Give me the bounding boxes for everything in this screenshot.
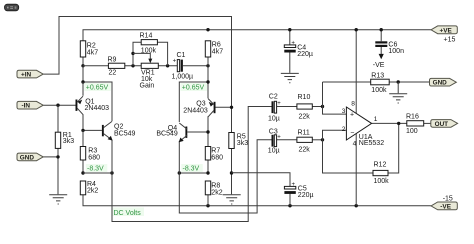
svg-text:DC Volts: DC Volts: [114, 210, 142, 217]
transistor Q4: [156, 123, 187, 142]
node R10 right junction: [321, 105, 324, 108]
svg-text:100k: 100k: [374, 178, 390, 185]
node wiper tap junction: [131, 52, 134, 55]
resistor R14: [140, 33, 158, 55]
ground under R1: [49, 195, 67, 204]
svg-text:22k: 22k: [299, 114, 311, 121]
tag GND left: [17, 153, 43, 161]
capacitor C6: [375, 41, 404, 55]
node VR1 left junction: [131, 64, 134, 67]
svg-text:-IN: -IN: [22, 103, 31, 110]
transistor Q2: [102, 121, 136, 140]
svg-text:R11: R11: [298, 130, 310, 137]
label DC Volts: [113, 208, 145, 217]
svg-text:+IN: +IN: [21, 72, 32, 79]
wire R3 column: [82, 130, 84, 173]
svg-text:220µ: 220µ: [297, 51, 313, 58]
wire pin2 net vertical to R12: [323, 130, 374, 173]
wire R16 to OUT tag: [424, 122, 431, 124]
svg-text:Gain: Gain: [140, 83, 155, 90]
node C4 top junction: [288, 28, 291, 31]
wire Q2 node down to bottom rail to C2 riser: [112, 107, 272, 222]
wire R1 column: [57, 105, 59, 194]
node R14 right junction: [166, 64, 169, 67]
capacitor C2: [268, 93, 281, 122]
wire ground stub under R13: [397, 82, 399, 93]
wire Q3 collector to Q4 base node: [207, 116, 209, 146]
svg-text:GND: GND: [433, 80, 448, 87]
svg-text:R12: R12: [374, 162, 387, 169]
svg-text:8: 8: [351, 101, 355, 108]
node opamp pin4 junction: [355, 204, 358, 207]
svg-text:BC549: BC549: [114, 131, 136, 138]
svg-text:OUT: OUT: [435, 121, 449, 128]
node Q3 base junction: [230, 106, 233, 109]
wire Q3 emitter node row: [179, 66, 208, 122]
tag OUT: [431, 120, 458, 128]
resistor R13: [371, 72, 390, 93]
svg-text:+VE: +VE: [440, 27, 453, 34]
svg-text:+0.65V: +0.65V: [182, 85, 205, 92]
svg-text:R16: R16: [406, 114, 419, 121]
tag GND right: [430, 78, 457, 86]
svg-text:3: 3: [342, 108, 346, 115]
resistor R4: [80, 181, 98, 195]
capacitor C5: [284, 182, 313, 199]
svg-text:BC549: BC549: [156, 131, 178, 138]
svg-text:680: 680: [88, 154, 100, 161]
svg-text:100k: 100k: [141, 47, 157, 54]
svg-text:4: 4: [353, 140, 357, 147]
wire main +VE top rail: [83, 30, 431, 41]
svg-text:NE5532: NE5532: [359, 140, 384, 147]
resistor R16: [406, 114, 424, 136]
svg-text:220µ: 220µ: [298, 192, 314, 199]
-VE arrow under C6: [379, 54, 384, 59]
wire opamp pin8 vertical: [355, 30, 357, 114]
wire R5 bottom to ground node: [231, 149, 233, 195]
node R3 bottom junction: [81, 171, 84, 174]
svg-text:+: +: [277, 134, 281, 140]
wire Q4 base: [187, 131, 208, 133]
svg-text:4k7: 4k7: [212, 48, 223, 55]
wire C3 right to R11: [276, 139, 297, 141]
wire GND tag lead: [43, 156, 58, 158]
svg-text:+: +: [350, 112, 354, 119]
node R6 top junction: [206, 28, 209, 31]
node R7 bottom junction: [206, 171, 209, 174]
wire Q3 base: [215, 106, 231, 108]
svg-text:−: −: [350, 130, 354, 137]
resistor R6: [205, 41, 223, 57]
wire Q2 emitter vertical: [111, 140, 113, 173]
capacitor C3: [268, 129, 282, 155]
wire R9 VR1 row: [83, 65, 208, 67]
wire opamp pin4 vertical: [355, 134, 357, 206]
node R13 right junction: [397, 80, 400, 83]
svg-text:C2: C2: [269, 93, 278, 100]
wire R6 bottom to C1: [207, 57, 209, 66]
svg-text:680: 680: [211, 154, 223, 161]
svg-text:100: 100: [406, 128, 418, 135]
capacitor C4: [284, 40, 313, 58]
svg-text:+: +: [291, 40, 295, 46]
wire opamp output to R16: [372, 122, 407, 124]
wire Q1 emitter vertical: [82, 82, 84, 96]
svg-text:+: +: [277, 101, 281, 107]
resistor R12: [373, 162, 389, 185]
svg-text:22: 22: [109, 70, 117, 77]
svg-text:1,000µ: 1,000µ: [172, 73, 194, 80]
resistor R11: [297, 130, 312, 154]
svg-text:2N4403: 2N4403: [183, 107, 208, 114]
node Q1 emitter junction: [81, 80, 84, 83]
wire R14 loop right side: [157, 42, 167, 66]
label -8.3V right: [181, 164, 203, 173]
svg-text:R13: R13: [371, 72, 384, 79]
transistor Q1: [76, 96, 110, 114]
wire VR1 wiper: [133, 53, 150, 59]
tag +IN: [17, 70, 43, 78]
wire R8 bottom stub: [207, 195, 209, 206]
tag +VE: [431, 26, 457, 34]
label -8.3V left: [86, 164, 108, 173]
resistor R1: [55, 132, 74, 148]
node R8 bottom junction: [206, 204, 209, 207]
svg-text:-15: -15: [443, 195, 453, 202]
svg-text:2: 2: [342, 126, 346, 133]
node C1 right junction: [206, 64, 209, 67]
svg-text:-8.3V: -8.3V: [183, 166, 200, 173]
tag -IN: [17, 101, 43, 109]
wire R10 to pin3 node: [312, 106, 322, 108]
resistor R9: [108, 56, 125, 76]
resistor R10: [297, 94, 312, 121]
resistor R7: [205, 147, 223, 162]
label +0.65V right: [181, 83, 208, 92]
svg-text:C1: C1: [177, 52, 186, 59]
wire -IN lead to Q1 base: [43, 104, 75, 106]
node Q4 emitter junction: [178, 171, 181, 174]
svg-text:-VE: -VE: [373, 62, 385, 69]
svg-text:GND: GND: [20, 154, 35, 161]
node Q1 collector junction: [81, 129, 84, 132]
node GND tag junction: [56, 155, 59, 158]
svg-text:R9: R9: [108, 56, 117, 63]
svg-text:R14: R14: [140, 33, 153, 40]
resistor R3: [80, 147, 100, 162]
wire R13 row to GND: [323, 81, 430, 83]
node C6 top junction: [380, 28, 383, 31]
node R5 ground junction: [230, 171, 233, 174]
wire pin3 net vertical: [323, 82, 347, 114]
wire C2 right to R10: [276, 106, 297, 108]
wire R2 bottom to R9 row: [82, 57, 84, 66]
svg-text:10µ: 10µ: [268, 115, 280, 122]
node R11 right junction: [321, 138, 324, 141]
svg-text:22k: 22k: [299, 147, 311, 154]
svg-text:10µ: 10µ: [268, 147, 280, 154]
op-amp U1A: [342, 101, 385, 148]
wire Q4 node down to rail to C3 riser: [179, 140, 271, 213]
wire +IN lead and top rail to Q3 base column: [43, 17, 231, 133]
wire C5 bottom stub: [289, 193, 291, 206]
svg-text:2k2: 2k2: [87, 188, 98, 195]
svg-text:+: +: [173, 59, 177, 65]
node R2 bottom junction: [81, 64, 84, 67]
node R1 top junction: [56, 104, 59, 107]
watermark badge: [5, 4, 19, 11]
node C5 bottom junction: [288, 204, 291, 207]
svg-text:1: 1: [374, 116, 378, 123]
wire Q1 emitter node row: [83, 66, 112, 121]
node Q3 emitter junction: [206, 80, 209, 83]
svg-text:3k3: 3k3: [63, 138, 74, 145]
ground under R13: [389, 94, 407, 103]
svg-text:-8.3V: -8.3V: [87, 166, 104, 173]
svg-text:2k2: 2k2: [211, 189, 222, 196]
wire C4 stub: [289, 30, 291, 73]
node Q2 emitter junction: [110, 171, 113, 174]
resistor R5: [229, 133, 248, 149]
node pin8 rail junction: [355, 28, 358, 31]
potentiometer VR1: [140, 63, 159, 89]
svg-text:100k: 100k: [371, 87, 387, 94]
svg-text:3k3: 3k3: [237, 140, 248, 147]
wiper arrowhead: [148, 59, 152, 64]
svg-text:4k7: 4k7: [87, 49, 98, 56]
wire R14 loop left side: [133, 42, 141, 66]
svg-text:-VE: -VE: [440, 203, 451, 210]
resistor R2: [80, 41, 98, 57]
wire Q4 emitter vertical: [178, 141, 180, 173]
resistor R8: [205, 181, 222, 196]
tag -VE: [431, 202, 457, 210]
ground under R5: [223, 195, 241, 204]
wire R5 node to C5 top: [232, 173, 291, 187]
svg-text:+0.65V: +0.65V: [86, 85, 109, 92]
svg-text:R10: R10: [298, 94, 311, 101]
wire C6 stub: [380, 30, 382, 55]
svg-text:100n: 100n: [388, 48, 404, 55]
wire emitter row left channel: [83, 172, 112, 174]
wire R4 bottom to -VE rail: [83, 195, 431, 206]
node output junction: [397, 122, 400, 125]
node Q4 base junction: [206, 130, 209, 133]
capacitor C1: [172, 52, 194, 81]
wire R12 right to output node: [388, 123, 399, 173]
wire Q1 collector to Q2 base node: [83, 114, 102, 130]
wire R7 bottom row: [179, 160, 208, 173]
svg-text:+: +: [292, 182, 296, 188]
wire R11 to pin2 node: [312, 139, 322, 141]
svg-text:+15: +15: [444, 36, 456, 43]
label +0.65V left: [84, 83, 111, 92]
transistor Q3: [183, 99, 215, 117]
svg-text:2N4403: 2N4403: [85, 105, 110, 112]
ground under C4: [281, 73, 299, 82]
